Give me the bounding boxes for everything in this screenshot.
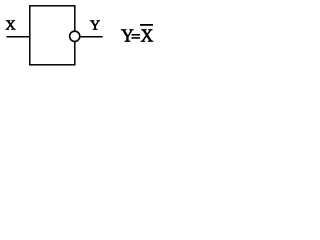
svg-text:X: X <box>6 19 16 34</box>
wire output Y <box>80 36 103 38</box>
svg-text:X: X <box>141 26 154 46</box>
equation NOT overline <box>140 24 153 26</box>
svg-text:Y: Y <box>90 19 100 34</box>
equation equals sign <box>132 34 141 36</box>
wire input X <box>7 36 30 38</box>
inversion bubble <box>70 31 80 41</box>
inverter U1 body <box>30 6 75 65</box>
